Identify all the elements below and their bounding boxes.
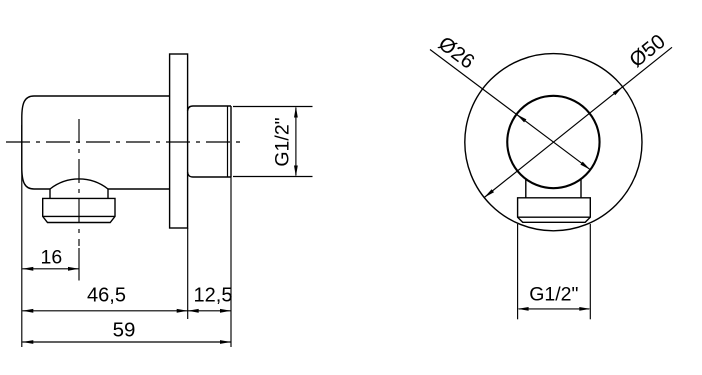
side view: outlet neck right — [107, 189, 109, 198]
side view: threaded pipe top edge — [188, 106, 231, 111]
extension line: pipe bottom for G1/2 — [233, 176, 313, 178]
side view: threaded pipe bottom edge — [188, 172, 231, 177]
front view: nut mid line — [518, 216, 591, 218]
svg-text:G1/2": G1/2" — [272, 117, 294, 166]
front view: flange circle D50 — [465, 54, 642, 231]
side view: pipe end face — [230, 106, 232, 177]
extension line: body left edge — [21, 125, 23, 347]
extension line: nut left for G1/2 front — [517, 224, 519, 319]
side view: outlet dome arc — [50, 179, 108, 189]
svg-text:12,5: 12,5 — [194, 285, 233, 307]
dimension G1/2 front line — [519, 308, 590, 310]
svg-text:16: 16 — [41, 247, 63, 269]
side view: nut mid line — [43, 215, 115, 217]
dimension 59 line — [22, 341, 231, 343]
side view: vertical centerline of outlet — [78, 119, 80, 246]
front view: outlet neck right line — [580, 180, 582, 198]
dimension 46,5 line — [22, 310, 187, 312]
extension line: nut right for G1/2 front — [589, 224, 591, 319]
side view: body bottom edge right of outlet — [108, 188, 170, 190]
svg-text:G1/2": G1/2" — [529, 283, 578, 305]
dimension G1/2 side view line — [295, 108, 297, 176]
front view: body circle D26 — [507, 96, 599, 188]
extension line: flange right face — [187, 228, 189, 319]
extension line: pipe end — [230, 177, 232, 347]
front view: nut outline — [518, 198, 591, 223]
side view: body outline — [22, 96, 170, 189]
dimension D50 diagonal line — [484, 47, 672, 197]
extension line: pipe top for G1/2 — [233, 106, 313, 108]
side view: horizontal centerline — [6, 141, 246, 143]
side view: outlet neck left — [49, 189, 51, 198]
dimension 12,5 line — [188, 310, 231, 312]
dimension D26 diagonal line — [430, 50, 590, 170]
svg-text:46,5: 46,5 — [87, 285, 126, 307]
svg-text:59: 59 — [113, 319, 136, 342]
dimension 16 line — [22, 268, 79, 270]
side view: thread relief line — [227, 106, 229, 177]
front view: outlet neck left line — [525, 180, 527, 198]
side view: nut outline — [43, 198, 115, 222]
side view: wall flange — [170, 54, 188, 228]
